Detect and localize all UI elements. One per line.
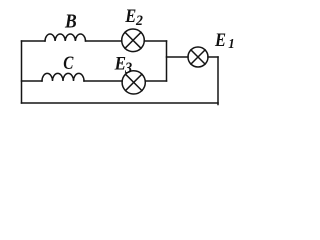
wire junction vertical: [166, 41, 168, 81]
label E3: [114, 52, 133, 77]
label E1: [214, 29, 235, 51]
svg-text:C: C: [63, 53, 74, 74]
wire bottom rail: [22, 102, 219, 104]
wire E1 to right: [208, 56, 218, 58]
wire top rail right: [86, 40, 122, 42]
svg-text:B: B: [64, 11, 77, 33]
lamp E1: [188, 47, 208, 67]
wire middle rail left: [22, 80, 43, 82]
svg-text:1: 1: [228, 36, 234, 52]
svg-text:E: E: [214, 29, 226, 50]
wire top rail left: [22, 40, 46, 42]
wire left vertical: [21, 41, 23, 103]
inductor B: [45, 34, 86, 41]
label E2: [124, 5, 143, 29]
wire E3 to junction: [145, 80, 166, 82]
svg-text:E: E: [124, 5, 136, 26]
wire E2 to junction: [144, 40, 166, 42]
wire middle rail right: [84, 80, 122, 82]
wire junction to E1: [167, 56, 189, 58]
lamp E2: [122, 29, 145, 52]
svg-text:2: 2: [135, 13, 143, 29]
wire right vertical: [217, 57, 219, 105]
inductor C: [42, 73, 84, 81]
svg-text:3: 3: [124, 61, 133, 78]
lamp E3: [122, 71, 145, 94]
